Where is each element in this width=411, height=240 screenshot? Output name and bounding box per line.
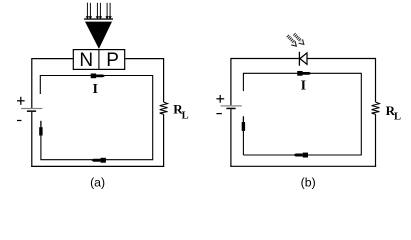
wire right upper (a) <box>163 58 165 102</box>
inner loop wire left stub (b) <box>242 73 244 91</box>
big light arrow triangle (a) <box>85 22 112 49</box>
battery B2 short plate (b) <box>226 108 235 110</box>
plus label (a) <box>17 97 25 105</box>
light ray arrow 1 (b) <box>288 36 297 46</box>
wire bottom (b) <box>230 165 376 167</box>
photodiode D1 (b) <box>299 52 307 66</box>
minus label (b) <box>216 113 222 115</box>
resistor RL zigzag (a) <box>160 102 168 114</box>
wire left upper (b) <box>230 58 232 105</box>
light ray arrowheads (a) <box>86 16 112 19</box>
wire left lower (b) <box>230 109 232 167</box>
wire right upper (b) <box>375 58 377 102</box>
inner loop wire top (b) <box>243 72 361 74</box>
wire top-right (a) <box>125 58 164 60</box>
label RL (a) <box>173 102 188 122</box>
plus label (b) <box>216 95 224 103</box>
current arrow right (b) <box>297 71 311 76</box>
label RL (b) <box>386 103 401 123</box>
inner loop wire left lower (b) <box>242 131 244 155</box>
minus label (a) <box>17 120 22 122</box>
current arrow left (b) <box>293 153 308 158</box>
inner loop wire bottom (a) <box>40 159 152 161</box>
wire top-right (b) <box>307 58 376 60</box>
wire left upper (a) <box>31 58 33 108</box>
wire right lower (a) <box>163 114 165 167</box>
light ray lines (a) <box>87 3 110 17</box>
light ray arrow 2 (b) <box>294 34 304 44</box>
svg-text:I: I <box>301 79 306 94</box>
inner loop wire left stub (a) <box>39 75 41 94</box>
wire bottom (a) <box>31 165 164 167</box>
current arrow right (a) <box>91 74 106 79</box>
inner loop wire right (a) <box>152 75 154 160</box>
svg-text:(b): (b) <box>301 175 316 189</box>
battery B1 long plate (a) <box>21 108 42 109</box>
svg-text:I: I <box>92 82 97 97</box>
current arrow up (b) <box>242 116 245 131</box>
wire left lower (a) <box>31 112 33 167</box>
inner loop wire left lower (a) <box>40 135 42 160</box>
photovoltaic cell N-P box U1 <box>73 50 124 70</box>
current arrow up (a) <box>39 121 42 136</box>
svg-text:P: P <box>106 50 119 71</box>
battery B2 long plate (b) <box>221 105 242 106</box>
svg-text:(a): (a) <box>90 175 105 189</box>
inner loop wire bottom (b) <box>243 154 361 156</box>
resistor RL zigzag (b) <box>372 102 380 114</box>
svg-text:N: N <box>79 50 93 71</box>
wire top-left (b) <box>231 58 299 60</box>
current arrow left (a) <box>91 158 106 163</box>
battery B1 short plate (a) <box>27 110 36 112</box>
inner loop wire right (b) <box>360 73 362 156</box>
big light arrow bar (a) <box>84 18 113 19</box>
wire right lower (b) <box>375 114 377 167</box>
svg-text:L: L <box>394 112 401 123</box>
wire top-left (a) <box>32 58 74 60</box>
inner loop wire top (a) <box>40 75 152 77</box>
svg-text:L: L <box>182 111 189 122</box>
